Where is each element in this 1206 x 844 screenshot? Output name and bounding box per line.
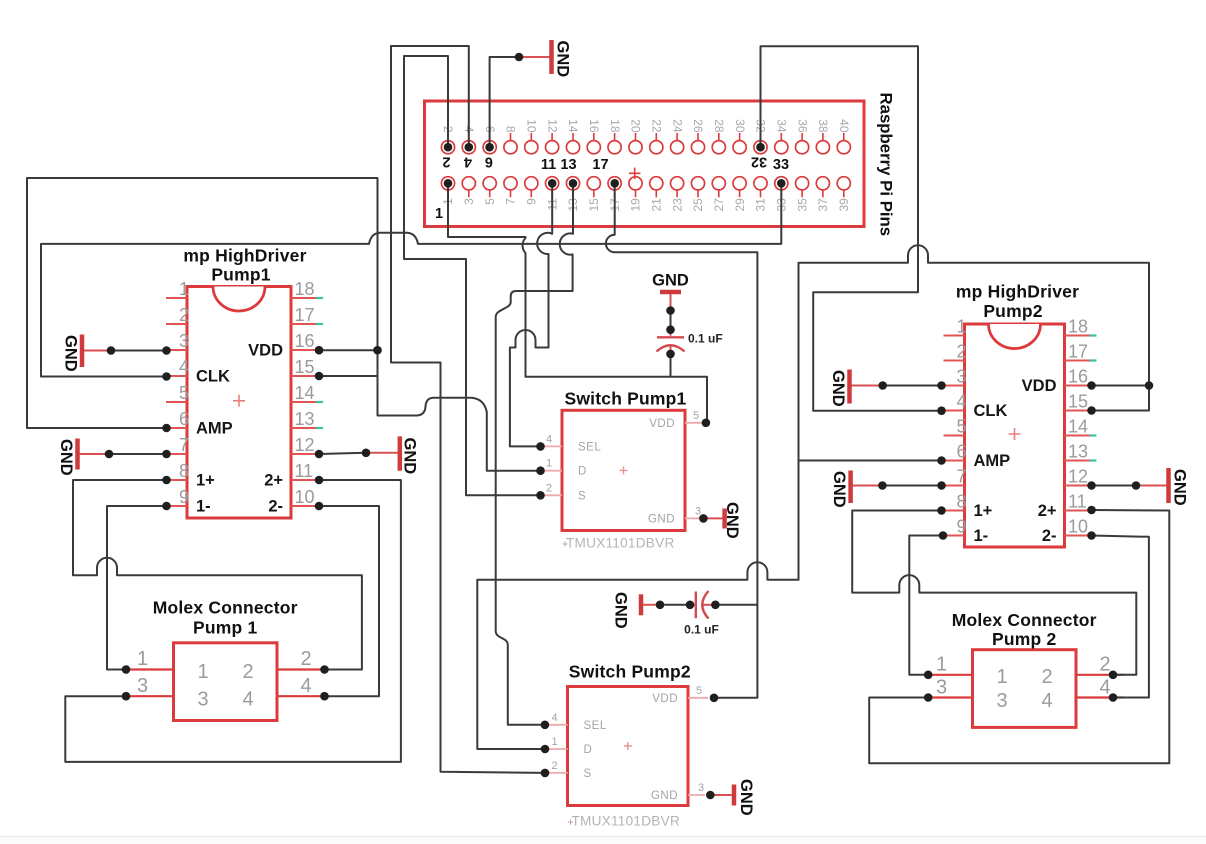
svg-text:39: 39 [837, 198, 851, 212]
svg-text:40: 40 [837, 119, 851, 133]
svg-text:13: 13 [560, 157, 576, 173]
U-Pump1 left pin stubs 1-9 [166, 298, 187, 506]
svg-text:GND: GND [648, 513, 675, 525]
svg-text:GND: GND [612, 592, 630, 629]
svg-text:3: 3 [936, 677, 947, 699]
wire U-Pump1 2- to Molex1 pin4 [319, 506, 379, 696]
junction dot (111,350.5) [107, 346, 116, 355]
junction dot (126,696.2) [122, 692, 131, 701]
svg-text:17: 17 [295, 305, 315, 325]
svg-text:1: 1 [179, 279, 189, 299]
svg-text:0.1 uF: 0.1 uF [684, 623, 719, 637]
J1 anchor cross [629, 168, 640, 179]
svg-text:11: 11 [295, 461, 314, 481]
IC Switch Pump1 TMUX1101 body [562, 410, 685, 530]
svg-text:1+: 1+ [974, 502, 993, 520]
svg-text:10: 10 [525, 119, 539, 133]
svg-text:2+: 2+ [264, 472, 283, 490]
svg-text:GND: GND [62, 335, 80, 372]
svg-text:16: 16 [1068, 367, 1088, 387]
U-Pump1 notch [213, 287, 265, 312]
Switch Pump1 pin stubs [541, 423, 706, 519]
svg-text:4: 4 [1099, 677, 1110, 699]
svg-text:GND: GND [651, 790, 678, 802]
wire header pin6 to GND [490, 57, 519, 147]
junction dot (1091.5,535.5) [1087, 531, 1096, 540]
svg-text:5: 5 [693, 410, 699, 422]
Switch Pump2 anchor cross [624, 742, 632, 750]
svg-text:1: 1 [197, 661, 208, 683]
svg-text:10: 10 [295, 487, 315, 507]
Pump 2 pin stubs [925, 675, 1125, 698]
svg-text:11: 11 [541, 157, 556, 173]
svg-text:TMUX1101DBVR: TMUX1101DBVR [572, 814, 681, 829]
svg-text:1-: 1- [196, 498, 211, 516]
junction dot (941.5,385.5) [937, 381, 946, 390]
svg-text:6: 6 [485, 154, 493, 170]
svg-text:12: 12 [545, 119, 559, 133]
junction dot (544.9,724.8) [541, 721, 550, 730]
svg-text:2: 2 [1099, 653, 1110, 675]
junction dot (166.5,350.5) [162, 346, 171, 355]
svg-text:GND: GND [1171, 469, 1189, 506]
U-Pump2 pin numbers [956, 317, 1088, 537]
svg-text:9: 9 [179, 487, 189, 507]
svg-text:28: 28 [712, 119, 726, 133]
junction dot (540.5,446.4) [536, 442, 545, 451]
junction dot (1091.5,485.5) [1087, 481, 1096, 490]
ground symbol above capacitor C1 [660, 290, 681, 295]
svg-text:AMP: AMP [196, 420, 233, 438]
U-Pump1 right pin stubs 18-10 [291, 298, 317, 506]
junction dot (1113,697.5) [1109, 693, 1118, 702]
svg-text:11: 11 [1068, 492, 1087, 512]
wire U-Pump2 pin7 to GND [882, 485, 941, 487]
svg-text:7: 7 [956, 467, 966, 487]
svg-text:CLK: CLK [196, 368, 230, 386]
svg-text:32: 32 [751, 154, 767, 170]
junction dot (760.5,147.2) [756, 143, 765, 152]
junction dot (319,506) [315, 502, 324, 511]
svg-text:1: 1 [996, 666, 1007, 688]
ground symbol at U-Pump2 pin7 [848, 471, 853, 504]
svg-text:SEL: SEL [578, 441, 601, 453]
junction dot (166.5,480) [162, 476, 171, 485]
svg-text:7: 7 [179, 435, 189, 455]
J1 pin circles bottom row (pins 1..39) [441, 177, 850, 190]
svg-text:14: 14 [566, 119, 580, 133]
svg-text:14: 14 [1068, 417, 1088, 437]
svg-text:S: S [578, 490, 586, 502]
svg-text:2: 2 [300, 648, 311, 670]
svg-text:3: 3 [179, 331, 189, 351]
svg-text:3: 3 [197, 689, 208, 711]
junction dot (1091.5,410.5) [1087, 406, 1096, 415]
junction dot (941.5,510.5) [937, 506, 946, 515]
IC Switch Pump2 TMUX1101 body [568, 687, 689, 806]
svg-text:9: 9 [525, 198, 539, 205]
svg-text:Molex Connector: Molex Connector [952, 610, 1097, 630]
svg-text:19: 19 [629, 198, 643, 212]
svg-text:4: 4 [464, 154, 472, 170]
junction dot (166.5,428) [162, 424, 171, 433]
svg-text:2: 2 [442, 154, 450, 170]
svg-text:mp HighDriver: mp HighDriver [956, 282, 1079, 302]
wire U-Pump1 1+ to Molex1 pin2 [73, 480, 362, 670]
Pump 1 inside pad numbers [197, 661, 253, 711]
svg-text:GND: GND [57, 439, 75, 476]
junction dot (710.3,795) [706, 791, 715, 800]
svg-text:30: 30 [733, 119, 747, 133]
svg-text:10: 10 [1068, 517, 1088, 537]
junction dot (943,535.5) [939, 531, 948, 540]
svg-text:S: S [584, 768, 592, 780]
svg-text:2: 2 [546, 482, 552, 494]
svg-text:4: 4 [956, 392, 966, 412]
svg-text:GND: GND [829, 370, 847, 407]
junction dot (319,350.2) [315, 346, 324, 355]
svg-text:16: 16 [295, 331, 315, 351]
wire U-Pump2 2+ to Molex2 pin3 [869, 510, 1169, 763]
U-Pump2 no-connect ticks pins 18 17 14 13 [1090, 336, 1097, 461]
Pump 1 outside pin numbers [137, 648, 312, 697]
svg-text:5: 5 [696, 685, 702, 697]
IC U-Pump2 mp HighDriver body [965, 324, 1065, 547]
svg-text:15: 15 [1068, 392, 1088, 412]
junction dot (468.8,147.2) [465, 143, 474, 152]
svg-text:3: 3 [698, 782, 704, 794]
svg-text:4: 4 [1041, 690, 1052, 712]
svg-text:4: 4 [179, 357, 189, 377]
svg-text:2: 2 [1041, 666, 1052, 688]
svg-text:6: 6 [179, 409, 189, 429]
J1 pin stubs top row [448, 133, 844, 140]
svg-text:1: 1 [551, 736, 557, 748]
svg-text:7: 7 [504, 198, 518, 205]
svg-text:2: 2 [956, 342, 966, 362]
svg-text:GND: GND [401, 438, 419, 475]
junction dot (109,454) [105, 450, 114, 459]
junction dot (928.2,697.5) [924, 693, 933, 702]
junction dot (714,697.8) [710, 694, 719, 703]
junction dot (166.5,376.5) [162, 372, 171, 381]
svg-text:36: 36 [795, 119, 809, 133]
svg-text:2: 2 [551, 760, 557, 772]
svg-text:2-: 2- [1042, 527, 1057, 545]
svg-text:1+: 1+ [196, 472, 215, 490]
svg-text:VDD: VDD [1022, 377, 1057, 395]
connector Pump 2 Molex body [973, 650, 1077, 728]
svg-text:8: 8 [956, 492, 966, 512]
svg-text:2: 2 [242, 661, 253, 683]
wire header pin17 to Switch Pump2 VDD and C2 [606, 183, 758, 698]
svg-text:VDD: VDD [652, 693, 678, 705]
junction dot (614.7,183.3) [610, 179, 619, 188]
wire U-Pump2 pin3 to GND [883, 385, 942, 387]
svg-text:24: 24 [670, 119, 684, 133]
svg-text:1: 1 [546, 458, 552, 470]
svg-text:33: 33 [773, 157, 789, 173]
junction dot (366,452.8) [362, 449, 371, 458]
Switch Pump1 pin numbers [546, 410, 701, 518]
svg-text:SEL: SEL [584, 720, 607, 732]
U-Pump2 left pin stubs 1-9 [944, 336, 965, 536]
junction dot (1136,485.5) [1132, 481, 1141, 490]
svg-text:4: 4 [551, 712, 557, 724]
Switch Pump1 anchor cross [620, 466, 628, 474]
svg-text:15: 15 [295, 357, 315, 377]
U-Pump2 pin function labels [974, 377, 1057, 545]
svg-text:0.1 uF: 0.1 uF [688, 332, 723, 346]
junction dot (703.4,518.4) [699, 514, 708, 523]
ground symbol at U-Pump1 pin3 [80, 335, 85, 368]
svg-text:37: 37 [816, 198, 830, 212]
junction dot (941.5,410.7) [937, 406, 946, 415]
connector J1 Raspberry Pi Pins outline [425, 101, 865, 227]
junction dot (126,669.5) [122, 665, 131, 674]
svg-text:18: 18 [1068, 317, 1088, 337]
wire U-Pump1 pin7 to GND [109, 453, 167, 455]
page bottom edge line [0, 836, 1206, 838]
junction dot (540.5,495.3) [536, 491, 545, 500]
U-Pump1 anchor cross [233, 395, 245, 407]
J1 pin circles top row (pins 2..40) [441, 141, 850, 154]
junction dot (1113,674.8) [1109, 671, 1118, 680]
svg-text:34: 34 [775, 119, 789, 133]
svg-text:5: 5 [483, 198, 497, 205]
junction dot (705.9,422.8) [702, 419, 711, 428]
junction dot (448,147.2) [444, 143, 453, 152]
capacitor C2 0.1uF (horizontal) [660, 604, 690, 606]
svg-text:26: 26 [691, 119, 705, 133]
junction dot (660,604.8) [656, 601, 665, 610]
junction dot (1091.5,510) [1087, 506, 1096, 515]
ground symbol at U-Pump2 pin3 [847, 370, 852, 404]
Pump 2 outside pin numbers [936, 653, 1111, 698]
ground symbol at U-Pump1 pin12 [398, 436, 403, 470]
junction dot (540.5,470.7) [536, 466, 545, 475]
junction dot (670.5,353.9) [666, 350, 675, 359]
junction dot (489.6,147.2) [485, 143, 494, 152]
junction dot (552.2,183.3) [548, 179, 557, 188]
junction dot (324.5,696.2) [320, 692, 329, 701]
svg-text:13: 13 [1068, 442, 1088, 462]
svg-text:15: 15 [587, 198, 601, 212]
J1 rotated pin number labels bottom row (odd pins) [441, 198, 851, 212]
junction dot (928.2,674.8) [924, 671, 933, 680]
svg-text:38: 38 [816, 119, 830, 133]
svg-text:1-: 1- [974, 527, 989, 545]
ground symbol at U-Pump2 pin12 [1166, 468, 1171, 503]
svg-text:GND: GND [554, 41, 572, 78]
svg-text:27: 27 [712, 198, 726, 212]
junction dot (941.5,485.5) [937, 481, 946, 490]
wire U-Pump1 1- to Molex1 pin1 [107, 506, 167, 670]
wire header pin32 to U-Pump2 CLK (pin4) [761, 46, 942, 411]
svg-text:AMP: AMP [974, 452, 1011, 470]
junction dot (448,183.3) [444, 179, 453, 188]
J1 net number labels black [435, 154, 789, 223]
svg-text:5: 5 [179, 383, 189, 403]
wire header pin13 to Switch Pump2 SEL [496, 183, 573, 725]
svg-text:17: 17 [592, 157, 608, 173]
svg-text:Pump 1: Pump 1 [193, 618, 257, 638]
junction dot (324.5,669.5) [320, 665, 329, 674]
svg-text:D: D [584, 744, 593, 756]
svg-text:8: 8 [179, 461, 189, 481]
U-Pump1 no-connect ticks pins 18 17 14 13 [316, 298, 323, 428]
svg-text:13: 13 [295, 409, 315, 429]
junction dot (319,480) [315, 476, 324, 485]
junction dot (882.4,485.5) [878, 481, 887, 490]
wire header pin2 to Switch Pump1 S [404, 56, 541, 495]
svg-text:3: 3 [462, 198, 476, 205]
wire U-Pump2 2- to Molex2 pin4 [1092, 536, 1149, 698]
junction dot (377.5,350.2) [373, 346, 382, 355]
svg-text:23: 23 [670, 198, 684, 212]
svg-text:Switch Pump2: Switch Pump2 [569, 662, 691, 682]
svg-text:12: 12 [1068, 467, 1088, 487]
junction dot (1149,385.5) [1145, 381, 1154, 390]
svg-text:D: D [578, 466, 587, 478]
svg-text:1: 1 [435, 206, 443, 222]
ground symbol at capacitor C2 [639, 594, 644, 615]
Pump 1 pin stubs [126, 670, 326, 697]
svg-text:VDD: VDD [649, 418, 675, 430]
Switch Pump2 pin numbers [551, 685, 704, 794]
svg-text:3: 3 [137, 675, 148, 697]
junction dot (319,376) [315, 372, 324, 381]
connector Pump 1 Molex body [174, 643, 278, 721]
svg-text:VDD: VDD [248, 342, 283, 360]
junction dot (1091.5,385.5) [1087, 381, 1096, 390]
svg-text:18: 18 [608, 119, 622, 133]
junction dot (166.5,454) [162, 450, 171, 459]
junction dot (670.5,310.5) [666, 306, 675, 315]
svg-text:6: 6 [956, 442, 966, 462]
wire U-Pump2 1+ to Molex2 pin2 [852, 511, 1136, 675]
J1 rotated pin number labels top row (even pins) [441, 119, 851, 133]
svg-text:CLK: CLK [974, 402, 1008, 420]
wire net VDD2: U-Pump2 AMP pins15 16 to Switch Pump2 D [477, 245, 1149, 749]
Pump 2 inside pad numbers [996, 666, 1052, 712]
svg-text:20: 20 [629, 119, 643, 133]
junction dot (941.5,460.5) [937, 456, 946, 465]
svg-text:31: 31 [754, 198, 768, 212]
junction dot (519,57) [515, 53, 524, 62]
ground symbol at Switch Pump1 GND pin [722, 509, 727, 529]
svg-text:22: 22 [650, 119, 664, 133]
ground symbol at U-Pump1 pin7 [75, 439, 80, 470]
svg-text:2+: 2+ [1038, 502, 1057, 520]
svg-text:4: 4 [300, 675, 311, 697]
junction dot (545,749) [541, 745, 550, 754]
svg-text:8: 8 [504, 126, 518, 133]
svg-text:9: 9 [956, 517, 966, 537]
svg-text:2-: 2- [268, 498, 283, 516]
svg-text:Raspberry Pi Pins: Raspberry Pi Pins [877, 93, 896, 237]
svg-text:3: 3 [996, 690, 1007, 712]
junction dot (573,183.3) [569, 179, 578, 188]
svg-text:GND: GND [737, 779, 755, 816]
Switch Pump2 pin stubs [546, 698, 708, 795]
svg-text:mp HighDriver: mp HighDriver [183, 246, 306, 266]
U-Pump1 pin numbers [179, 279, 315, 507]
svg-text:1: 1 [956, 317, 966, 337]
wire U-Pump1 2+ to Molex1 pin3 [65, 480, 401, 762]
wire U-Pump2 1- to Molex2 pin1 [909, 536, 943, 675]
Switch Pump2 pin labels [584, 693, 679, 802]
U-Pump2 right pin stubs 18-10 [1065, 336, 1091, 536]
svg-text:GND: GND [830, 471, 848, 508]
wire header pin1 to Switch Pump1 VDD and C1 [448, 183, 707, 422]
Switch Pump1 pin labels [578, 418, 675, 526]
ground symbol near header pin6 [549, 40, 554, 74]
svg-text:2: 2 [179, 305, 189, 325]
svg-text:5: 5 [956, 417, 966, 437]
wire net VDD1: U-Pump1 AMP pins15 16 to Switch Pump1 D [27, 178, 541, 471]
wire header pin33 to U-Pump1 CLK (pin4) [41, 183, 781, 376]
svg-text:16: 16 [587, 119, 601, 133]
svg-text:1: 1 [936, 653, 947, 675]
U-Pump2 notch [989, 324, 1041, 349]
svg-text:Pump1: Pump1 [211, 265, 270, 285]
junction dot (670.5,329.7) [666, 325, 675, 334]
svg-text:3: 3 [956, 367, 966, 387]
capacitor C1 0.1uF (vertical) [670, 311, 672, 330]
J1 pin stubs bottom row [448, 190, 844, 197]
svg-text:Molex Connector: Molex Connector [153, 598, 298, 618]
svg-text:GND: GND [723, 502, 741, 539]
svg-text:35: 35 [795, 198, 809, 212]
svg-text:21: 21 [650, 198, 664, 212]
svg-text:14: 14 [295, 383, 315, 403]
svg-text:1: 1 [137, 648, 148, 670]
junction dot (545,772.9) [541, 769, 550, 778]
svg-text:12: 12 [295, 435, 315, 455]
wire U-Pump1 pin3 to GND [111, 350, 167, 352]
U-Pump2 anchor cross [1009, 428, 1021, 440]
svg-text:GND: GND [652, 272, 689, 290]
junction dot (882.7,385.5) [878, 381, 887, 390]
svg-text:TMUX1101DBVR: TMUX1101DBVR [566, 536, 675, 551]
svg-text:Switch Pump1: Switch Pump1 [564, 389, 686, 409]
junction dot (781.3,183.3) [777, 179, 786, 188]
junction dot (715.4,604.8) [711, 601, 720, 610]
junction dot (690,604.8) [686, 601, 695, 610]
wire header pin11 to Switch Pump1 SEL [510, 183, 552, 446]
wire U-Pump1 pin12 to GND [319, 453, 366, 454]
svg-text:Pump2: Pump2 [983, 301, 1042, 321]
IC U-Pump1 mp HighDriver body [187, 287, 291, 519]
svg-text:18: 18 [295, 279, 315, 299]
junction dot (319,454) [315, 450, 324, 459]
svg-text:25: 25 [691, 198, 705, 212]
wire U-Pump2 pin12 to GND [1092, 485, 1137, 487]
svg-text:4: 4 [546, 433, 552, 445]
U-Pump1 pin function labels [196, 342, 283, 516]
junction dot (166.5,506) [162, 502, 171, 511]
ground symbol at Switch Pump2 GND pin [732, 785, 737, 806]
svg-text:Pump 2: Pump 2 [992, 629, 1056, 649]
svg-text:4: 4 [242, 689, 253, 711]
svg-text:17: 17 [1068, 342, 1088, 362]
wire header pin4 to Switch Pump2 S [391, 46, 545, 773]
svg-text:29: 29 [733, 198, 747, 212]
